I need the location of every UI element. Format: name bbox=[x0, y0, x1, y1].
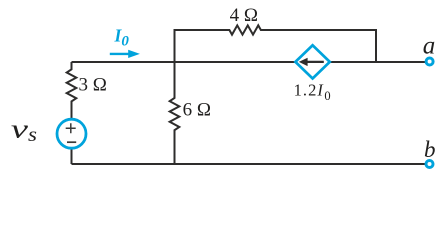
svg-text:3 Ω: 3 Ω bbox=[79, 74, 107, 95]
svg-text:6 Ω: 6 Ω bbox=[183, 99, 211, 120]
svg-text:b: b bbox=[424, 137, 436, 162]
svg-text:v: v bbox=[11, 115, 28, 144]
svg-text:I0: I0 bbox=[114, 25, 130, 49]
svg-text:4 Ω: 4 Ω bbox=[230, 5, 258, 26]
svg-text:1.2I0: 1.2I0 bbox=[294, 80, 332, 103]
svg-text:a: a bbox=[423, 33, 436, 60]
svg-text:s: s bbox=[28, 124, 37, 146]
